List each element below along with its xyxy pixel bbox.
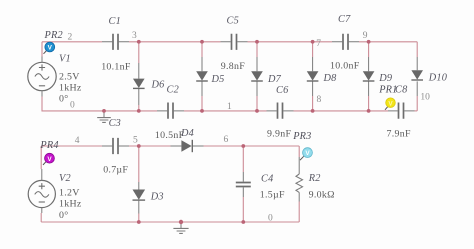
svg-text:D8: D8 [323,73,338,84]
wire top bus segment B [129,41,221,43]
diode D9 [363,42,375,111]
probe PR2 [44,42,55,54]
svg-text:2: 2 [68,32,73,42]
junction C4 top [241,144,245,148]
svg-text:C3: C3 [109,118,121,129]
resistor R2 [296,146,303,222]
wire bottom circuit top bus B [129,145,171,147]
probe PR4 [43,153,54,165]
junction D9 bottom [367,109,371,113]
svg-text:D6: D6 [151,80,166,91]
svg-text:0: 0 [268,213,273,223]
svg-text:PR3: PR3 [292,131,311,142]
diode D7 [251,42,263,111]
capacitor C7 [332,34,359,50]
junction C4 bottom [241,220,245,224]
svg-text:1kHz: 1kHz [59,199,82,210]
junction D7 bottom [255,109,259,113]
svg-text:C6: C6 [276,85,289,96]
voltage source V2 [28,169,55,213]
svg-text:C5: C5 [227,16,239,27]
diode D4 [171,140,204,152]
wire middle bus left [42,97,157,111]
wire top bus segment A [42,41,102,43]
svg-text:4: 4 [75,136,80,146]
svg-text:V: V [305,150,310,157]
diode D8 [307,42,319,111]
svg-text:R2: R2 [308,173,321,184]
svg-text:0°: 0° [59,94,69,105]
svg-text:D5: D5 [211,74,225,85]
svg-text:9.0kΩ: 9.0kΩ [309,189,335,200]
junction D8 top [311,40,315,44]
svg-text:V: V [388,100,393,107]
wire bottom circuit top bus C [204,145,300,147]
svg-text:C4: C4 [261,173,273,184]
svg-text:0°: 0° [59,210,69,221]
junction D6 bottom [137,109,141,113]
svg-text:1.5µF: 1.5µF [260,190,285,201]
svg-text:10.0nF: 10.0nF [330,60,360,71]
svg-text:V: V [48,45,53,52]
svg-text:9.9nF: 9.9nF [267,129,291,140]
voltage source V1 [28,57,56,97]
svg-text:1.2V: 1.2V [59,187,80,198]
junction node 5 [137,144,141,148]
capacitor C1 [102,34,129,50]
junction D8 bottom node 8 [311,109,315,113]
wire V2 bottom [40,213,42,222]
junction ground top circuit [102,109,106,113]
svg-text:D3: D3 [150,192,164,203]
wire middle bus right end [415,110,418,112]
svg-text:C1: C1 [109,16,121,27]
capacitor C2 [157,103,184,119]
svg-text:8: 8 [317,95,322,105]
diode D5 [196,42,208,111]
wire middle bus center-left [184,110,267,112]
svg-text:9: 9 [363,31,368,41]
svg-text:2.5V: 2.5V [59,72,80,83]
wire V2 top [40,146,42,169]
svg-text:0.7µF: 0.7µF [103,164,128,175]
svg-text:9.8nF: 9.8nF [221,61,245,72]
wire middle bus center-right [294,110,389,112]
capacitor C3 [102,138,129,154]
svg-text:D7: D7 [267,74,282,85]
diode D10 [411,42,423,111]
wire bottom circuit bottom bus [41,221,299,223]
svg-text:7: 7 [316,39,321,49]
wire bottom circuit top bus A [41,145,102,147]
junction node 9 [367,40,371,44]
capacitor C6 [267,103,294,119]
diode D6 [133,42,145,111]
svg-text:6: 6 [224,135,229,145]
wire top bus segment C [248,41,333,43]
svg-text:3: 3 [132,31,137,41]
junction D5 top [200,40,204,44]
wire V1 top [41,42,43,57]
probe PR1 [385,98,395,110]
probe PR3 [300,148,312,160]
capacitor C8 [388,103,415,119]
wire top bus segment D [359,41,417,43]
svg-text:D10: D10 [428,72,448,83]
diode D3 [133,146,146,222]
svg-text:10: 10 [420,92,430,102]
svg-text:10.1nF: 10.1nF [101,61,131,72]
ground (top circuit) [97,111,111,122]
junction D3 bottom [137,220,141,224]
capacitor C4 [236,146,251,222]
svg-text:D9: D9 [378,73,392,84]
junction D7 top / node 7 [255,40,259,44]
capacitor C5 [221,34,248,50]
svg-text:5: 5 [133,135,138,145]
svg-text:1kHz: 1kHz [59,82,82,93]
svg-text:PR1: PR1 [378,85,397,96]
svg-text:PR2: PR2 [44,30,63,41]
junction D5 bottom [200,109,204,113]
svg-text:V: V [47,156,52,163]
svg-text:7.9nF: 7.9nF [387,129,411,140]
svg-text:0: 0 [70,100,75,110]
ground (bottom circuit) [173,223,188,234]
svg-text:C7: C7 [338,14,351,25]
svg-text:PR4: PR4 [39,140,58,151]
svg-text:V1: V1 [59,54,71,65]
svg-text:D4: D4 [180,128,194,139]
junction node 3 [137,40,141,44]
svg-text:1: 1 [227,102,232,112]
svg-text:V2: V2 [59,173,71,184]
svg-text:C2: C2 [167,85,179,96]
junction ground bottom circuit [179,220,183,224]
